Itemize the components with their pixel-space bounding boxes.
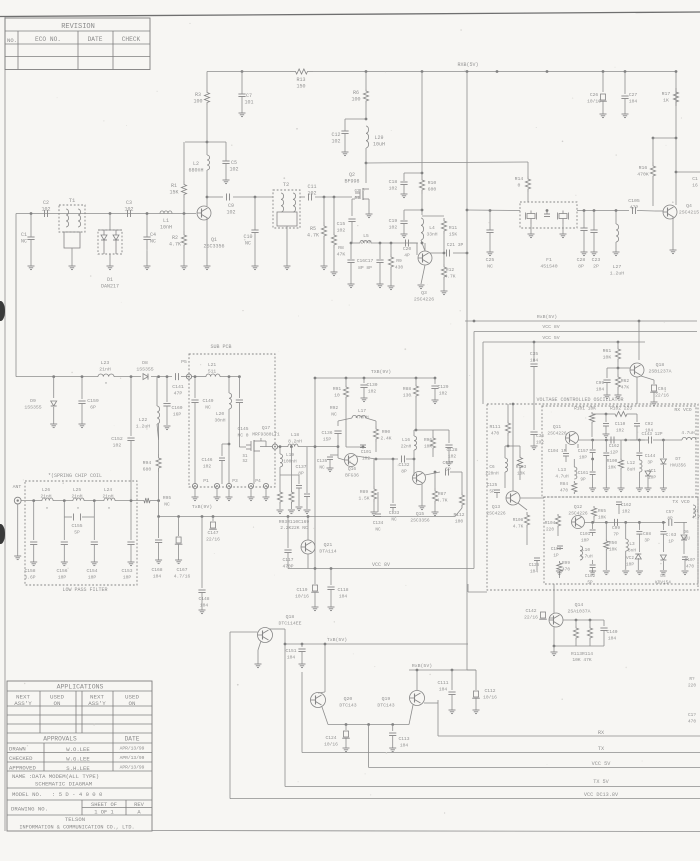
svg-text:C12: C12 <box>331 132 340 138</box>
wire TxB down to Q20 <box>324 644 326 692</box>
inductor L20 30nH column <box>228 375 231 378</box>
svg-text:C113: C113 <box>398 736 409 742</box>
ground under F1 left <box>530 224 532 234</box>
svg-text:4.7K: 4.7K <box>169 242 181 248</box>
svg-text:104: 104 <box>439 687 448 693</box>
wire RxB vertical to bottom x=469 <box>466 321 468 670</box>
svg-text:R6: R6 <box>353 90 359 96</box>
svg-text:R113R114: R113R114 <box>571 651 593 657</box>
inductor L3 8nH <box>625 522 627 539</box>
svg-text:104: 104 <box>629 99 638 105</box>
svg-text:220: 220 <box>546 528 554 533</box>
inductor L26 21nH <box>42 498 53 501</box>
svg-text:C1?: C1? <box>688 713 696 718</box>
wire filter row y=210 <box>466 209 469 212</box>
svg-text:22/16: 22/16 <box>655 393 669 399</box>
ground under C99 <box>604 394 611 396</box>
svg-text:RX: RX <box>598 730 605 736</box>
ground under R62 <box>615 394 622 396</box>
title block DRAWING row <box>7 814 152 816</box>
svg-text:Q16: Q16 <box>348 466 357 472</box>
svg-text:R111: R111 <box>489 424 500 430</box>
capacitor C26 10/16 <box>602 70 605 73</box>
svg-text:30nH: 30nH <box>214 418 225 424</box>
svg-text:16P: 16P <box>173 412 182 418</box>
svg-text:C158: C158 <box>24 568 35 574</box>
capacitor C160 16P <box>166 375 169 378</box>
svg-text:102: 102 <box>536 441 544 446</box>
svg-text:ASS'Y: ASS'Y <box>88 700 106 707</box>
svg-text:L10: L10 <box>582 548 590 553</box>
capacitor C3 102 series <box>127 210 129 217</box>
ground under C25 <box>487 251 494 253</box>
resistor R11 15K <box>422 215 444 217</box>
svg-text:R61: R61 <box>603 348 612 354</box>
svg-text:L29: L29 <box>374 135 383 141</box>
transistor Q3 2SC4226 <box>410 242 417 244</box>
scan hole blob upper <box>0 301 5 321</box>
capacitor C1 NC <box>27 236 34 238</box>
ground under R9 <box>388 285 395 287</box>
mosfet Q2 BF998 <box>365 162 368 165</box>
svg-text:C126: C126 <box>529 563 540 568</box>
svg-text:102: 102 <box>368 389 377 395</box>
svg-text:Q14: Q14 <box>575 602 584 608</box>
ground under L27 <box>613 251 620 253</box>
svg-text:C11: C11 <box>307 184 316 190</box>
svg-text:BFG36: BFG36 <box>345 473 359 479</box>
svg-text:T2: T2 <box>283 181 290 188</box>
resistor R2 4.7K <box>183 212 186 215</box>
capacitor C12 102 <box>365 118 368 121</box>
ground under P3 <box>228 489 230 497</box>
svg-text:C168: C168 <box>151 567 162 573</box>
svg-text:R101 10K: R101 10K <box>574 406 596 412</box>
capacitor C140 104 <box>603 620 605 626</box>
ground under C10 <box>252 265 259 267</box>
transformer T1 <box>59 205 85 232</box>
svg-text:S.H.LEE: S.H.LEE <box>66 765 90 772</box>
ground under T2 <box>284 265 291 267</box>
transistor Q4 2SC4215 <box>663 205 677 219</box>
svg-text:TxB(5V): TxB(5V) <box>327 637 347 643</box>
svg-text:RXB(5V): RXB(5V) <box>457 62 478 68</box>
ground under C18 <box>401 193 408 195</box>
svg-text:21nH: 21nH <box>102 494 113 500</box>
Q18 base wire <box>230 631 258 633</box>
svg-text:NO.: NO. <box>7 37 17 44</box>
svg-text:1 OF 1: 1 OF 1 <box>94 810 113 816</box>
svg-text:MRF9380LT1: MRF9380LT1 <box>252 432 280 438</box>
svg-text:2SC3356: 2SC3356 <box>410 518 430 524</box>
svg-text:C9: C9 <box>228 203 234 209</box>
svg-text:C5: C5 <box>231 160 237 166</box>
svg-text:C149: C149 <box>202 398 213 404</box>
svg-text:102: 102 <box>307 191 316 197</box>
svg-text:1.2uH: 1.2uH <box>610 271 625 277</box>
svg-text:10K: 10K <box>598 516 606 521</box>
svg-text:C157: C157 <box>578 449 589 454</box>
svg-text:10K: 10K <box>517 472 525 477</box>
resistor R114 47K <box>589 619 592 622</box>
svg-text:TxB(9V): TxB(9V) <box>192 504 212 510</box>
svg-text:Q2: Q2 <box>349 172 355 178</box>
svg-text:10K 47K: 10K 47K <box>572 657 592 663</box>
capacitor C11 102 series <box>308 194 310 201</box>
svg-text:HVU: HVU <box>682 537 690 542</box>
resistor R96 10K <box>430 436 435 450</box>
ground under C112 <box>473 709 480 711</box>
svg-text:130: 130 <box>403 393 412 399</box>
ground under C159 <box>79 423 86 425</box>
ground under C124 <box>343 747 350 749</box>
svg-text:10P: 10P <box>581 539 589 544</box>
capacitor C2 102 series <box>44 210 46 217</box>
page top scan edge line <box>0 12 700 17</box>
capacitor C154 10P <box>93 517 95 540</box>
svg-text:C111: C111 <box>437 680 448 686</box>
Q15 emitter ground <box>421 484 423 506</box>
svg-text:C156: C156 <box>56 568 67 574</box>
Q1 emitter ground <box>206 218 208 266</box>
ground under C5 <box>223 179 230 181</box>
wire RxB down to Q19 <box>416 670 418 690</box>
ground under C158 <box>30 561 37 563</box>
capacitor C102 5P <box>592 560 594 564</box>
svg-text:APR/13/99: APR/13/99 <box>120 755 145 761</box>
svg-text:R11: R11 <box>449 225 458 231</box>
svg-text:DTA114: DTA114 <box>319 549 336 555</box>
svg-text:NC: NC <box>391 518 397 523</box>
transistor Q1 2SC3356 <box>197 206 211 220</box>
svg-text:L7: L7 <box>693 509 699 514</box>
svg-text:R94: R94 <box>143 460 152 466</box>
svg-text:10K: 10K <box>608 466 616 471</box>
svg-text:L20: L20 <box>216 411 225 417</box>
svg-text:3P: 3P <box>644 539 650 544</box>
ground under R2 <box>181 265 188 267</box>
svg-text:C7: C7 <box>246 93 252 99</box>
svg-text:1P: 1P <box>668 540 674 545</box>
svg-text:C125: C125 <box>487 483 498 488</box>
svg-text:L3: L3 <box>629 542 635 547</box>
svg-text:5P: 5P <box>489 490 495 495</box>
ground under C153 <box>128 561 135 563</box>
capacitor C149 NC column <box>194 375 197 378</box>
capacitor C129 102 <box>434 377 437 380</box>
svg-text:C112: C112 <box>484 688 495 694</box>
resistor R17 1K in column <box>673 88 678 106</box>
svg-text:15P: 15P <box>323 437 332 443</box>
svg-text:5P: 5P <box>587 581 593 586</box>
svg-text:102: 102 <box>41 207 50 213</box>
pin P4b <box>263 483 268 488</box>
svg-text:DRAWN: DRAWN <box>9 746 26 753</box>
capacitor C153 10P <box>130 501 132 540</box>
svg-text:C147: C147 <box>207 530 218 536</box>
svg-text:C23: C23 <box>592 257 601 263</box>
svg-text:47P: 47P <box>174 391 183 397</box>
svg-text:2.2K22K NC: 2.2K22K NC <box>280 525 308 531</box>
svg-text:6P: 6P <box>90 405 96 411</box>
capacitor C156 10P <box>63 517 65 540</box>
resistor R8 47K <box>333 196 336 199</box>
resistor R101 vertical <box>589 412 594 424</box>
resistor R103 10K <box>519 446 521 455</box>
svg-text:680nH: 680nH <box>188 168 203 174</box>
svg-text:21nH: 21nH <box>40 494 51 500</box>
svg-text:R16: R16 <box>639 165 648 171</box>
svg-text:4P: 4P <box>404 253 410 259</box>
svg-text:DTC114EE: DTC114EE <box>278 621 301 627</box>
svg-text:C102: C102 <box>585 574 596 579</box>
wire RxB(5V) bus y=321 <box>465 320 697 322</box>
svg-text:L2: L2 <box>193 161 199 167</box>
ground under T1 <box>69 265 76 267</box>
svg-text:ANT: ANT <box>13 484 22 490</box>
wire TX 5V bus <box>285 786 700 788</box>
svg-text:22/16: 22/16 <box>206 537 220 543</box>
wire Q18b collector into VCO <box>636 377 638 404</box>
ground under C110 <box>603 433 610 435</box>
svg-text:150: 150 <box>296 84 305 90</box>
svg-text:C132: C132 <box>398 462 409 468</box>
svg-text:1SS355: 1SS355 <box>24 405 41 411</box>
svg-text:27nH: 27nH <box>360 240 371 246</box>
svg-text:10P: 10P <box>626 563 634 568</box>
svg-text:DTC143: DTC143 <box>339 703 356 709</box>
ground under C167 <box>175 559 182 561</box>
svg-text:C128: C128 <box>446 447 457 453</box>
title block APPROVED row <box>7 770 152 772</box>
svg-text:21nH: 21nH <box>99 367 111 373</box>
svg-text:R84: R84 <box>560 482 568 487</box>
resistor R113 10K <box>575 619 578 622</box>
svg-text:470: 470 <box>562 568 570 573</box>
title block NAME row <box>7 787 152 789</box>
varactor JC1 10P <box>645 471 651 476</box>
capacitor C99 104 <box>607 367 618 369</box>
svg-text:C152: C152 <box>111 436 123 442</box>
svg-text:C134: C134 <box>373 521 384 526</box>
svg-text:DTC143: DTC143 <box>377 703 394 709</box>
capacitor C101 10P <box>592 522 594 529</box>
svg-text:C26: C26 <box>590 92 599 98</box>
svg-text:C21 3P: C21 3P <box>447 242 464 248</box>
wire column x=422 <box>421 70 424 73</box>
capacitor C143 12P series <box>577 444 579 448</box>
svg-text:C25: C25 <box>486 257 495 263</box>
capacitor C19 102 <box>421 209 424 212</box>
wire Q16 collector row y=459 <box>375 458 378 461</box>
svg-text:RxB(5V): RxB(5V) <box>412 663 432 669</box>
resistor R93 2.2K <box>279 475 281 490</box>
svg-text:8P: 8P <box>578 264 584 270</box>
svg-text:NC: NC <box>21 239 27 245</box>
capacitor C135 NC <box>330 454 338 456</box>
capacitor C28 8P <box>583 209 586 212</box>
svg-text:7P: 7P <box>613 533 619 538</box>
ground under R12 <box>441 290 448 292</box>
ground under C154 <box>91 561 98 563</box>
capacitor C134 NC <box>377 492 379 512</box>
svg-text:5P: 5P <box>74 530 80 536</box>
svg-text:L13: L13 <box>558 468 566 473</box>
svg-text:MODEL NO.: MODEL NO. <box>12 791 42 798</box>
svg-text:REVISION: REVISION <box>61 23 95 31</box>
svg-text:VC2: VC2 <box>626 556 634 561</box>
ground under C94 <box>651 401 658 403</box>
capacitor C167 4.7/16 <box>177 515 180 518</box>
capacitor C15 102 <box>352 198 355 200</box>
svg-text:DATE: DATE <box>125 736 140 743</box>
capacitor C113 104 <box>391 723 394 726</box>
capacitor C25 NC <box>489 209 492 212</box>
capacitor C137 8P <box>280 474 299 476</box>
svg-text:TELSON: TELSON <box>65 816 85 823</box>
inductor L29 10uH <box>366 126 369 148</box>
svg-text:P1: P1 <box>203 478 209 484</box>
svg-text:TX VCO: TX VCO <box>672 499 689 505</box>
ground under C16 <box>348 283 355 285</box>
capacitor C118 104 <box>330 567 333 570</box>
ground under F1 right <box>562 224 564 234</box>
ground under C27 <box>622 113 629 115</box>
svg-text:R1: R1 <box>171 183 177 189</box>
svg-text:5P: 5P <box>445 467 451 473</box>
transformer T2 <box>273 190 300 228</box>
svg-text:G1: G1 <box>354 197 360 201</box>
inductor L1 10nH series <box>160 211 172 214</box>
capacitor C144 3P <box>638 440 640 452</box>
svg-text:Q4: Q4 <box>686 203 692 209</box>
capacitor C146 102 <box>228 443 231 446</box>
svg-text:G2: G2 <box>354 190 360 194</box>
svg-text:2SC4226: 2SC4226 <box>414 297 434 303</box>
VCO box bottom jog <box>467 584 469 592</box>
svg-text:D8: D8 <box>142 360 148 366</box>
svg-text:104: 104 <box>339 594 348 600</box>
svg-text:102: 102 <box>448 454 457 460</box>
svg-text:C137: C137 <box>295 464 306 470</box>
wire T2 to C11 <box>300 196 305 198</box>
svg-text:10K: 10K <box>609 548 617 553</box>
grounds TX VCO row <box>556 570 563 572</box>
svg-text:VCC 5V: VCC 5V <box>592 761 612 767</box>
svg-text:102: 102 <box>616 429 624 434</box>
svg-text:P5: P5 <box>181 359 187 365</box>
capacitor C148 104 <box>201 515 204 518</box>
svg-text:Q3: Q3 <box>421 290 427 296</box>
capacitor C16 8P <box>350 242 353 245</box>
svg-text:4.7: 4.7 <box>692 516 700 521</box>
svg-text:NC: NC <box>375 528 381 533</box>
svg-text:R17: R17 <box>662 91 671 97</box>
svg-text:C162: C162 <box>609 444 620 449</box>
resistor R91 10 <box>345 377 348 380</box>
svg-text:R95: R95 <box>163 495 172 501</box>
svg-text:C19: C19 <box>389 218 398 224</box>
diode D6 HVU <box>683 522 685 534</box>
resistor R13 150 series in rail <box>290 69 313 74</box>
inductor L12 8uH <box>638 456 640 461</box>
svg-text:C28: C28 <box>577 257 586 263</box>
ground under C7 <box>239 112 246 114</box>
svg-text:102: 102 <box>229 167 238 173</box>
capacitor C10 NC <box>254 196 257 199</box>
ground under C1 <box>28 265 35 267</box>
svg-text:Q13: Q13 <box>492 504 501 510</box>
capacitor C36 102 <box>533 404 535 430</box>
svg-text:10P: 10P <box>88 575 97 581</box>
wire Q15 collector to C127 <box>425 472 440 475</box>
low pass filter dashed box <box>25 481 137 585</box>
title block column lines <box>39 691 41 733</box>
ground under D1 <box>107 265 114 267</box>
svg-text:8uH: 8uH <box>627 468 635 473</box>
svg-text:R108: R108 <box>513 518 524 523</box>
ground under C148 <box>199 609 206 611</box>
svg-text:4.7/16: 4.7/16 <box>174 574 191 580</box>
svg-text:4.7uH: 4.7uH <box>555 475 569 480</box>
svg-text:101: 101 <box>244 100 253 106</box>
svg-text:Q15: Q15 <box>416 511 425 517</box>
svg-text:3P: 3P <box>647 461 653 466</box>
title block DRAWN row <box>7 752 152 754</box>
svg-text:LOW PASS FILTER: LOW PASS FILTER <box>62 587 107 593</box>
svg-text:C101: C101 <box>580 532 591 537</box>
svg-text:C160: C160 <box>171 405 182 411</box>
svg-text:4.7K: 4.7K <box>436 498 447 504</box>
wire RX bus <box>437 700 439 736</box>
resistor R6 100 <box>365 70 368 73</box>
wire VCC DC13.8V column x=230 <box>229 632 231 799</box>
svg-text:102: 102 <box>389 225 398 231</box>
svg-text:VCC 8V: VCC 8V <box>542 324 559 330</box>
svg-text:Q18: Q18 <box>656 362 665 368</box>
title block row APPLICATIONS <box>7 690 152 692</box>
ground under R89 <box>371 511 378 513</box>
pin P2 <box>214 483 219 488</box>
capacitor C162 12P series <box>610 437 612 444</box>
resistor R99 470 <box>557 561 562 573</box>
svg-text:C161: C161 <box>578 471 589 476</box>
capacitor C125 5P <box>494 489 500 491</box>
ground under C19 <box>401 233 408 235</box>
wire emitter row y=724.5 <box>322 707 328 725</box>
wire RXB vertical x=467 top <box>466 70 469 73</box>
svg-text:C133: C133 <box>389 511 400 516</box>
Q18 collector wire to TX5V column <box>269 628 285 630</box>
svg-text:102: 102 <box>331 139 340 145</box>
title block MODEL row <box>7 799 152 801</box>
wire VCC5V vertical x=483 <box>482 342 484 404</box>
mosfet Q17 MRF9380LT1 <box>238 412 240 447</box>
svg-text:TX 5V: TX 5V <box>593 779 609 785</box>
inductor L2 680nH <box>206 141 209 144</box>
capacitor C169 NC <box>306 447 308 493</box>
svg-text:NC: NC <box>164 502 170 508</box>
ground under C119 <box>312 606 319 608</box>
capacitor C133 NC <box>392 458 395 461</box>
resistor R112 100 column <box>461 472 463 492</box>
inductor L25 21nH <box>73 498 84 501</box>
wire Q1 collector to T2 <box>206 196 209 199</box>
svg-text:C99: C99 <box>612 526 620 531</box>
svg-text:C129: C129 <box>437 384 448 390</box>
wire VCC8V vertical x=474 <box>473 332 475 569</box>
capacitor C132 8P series <box>401 456 403 463</box>
